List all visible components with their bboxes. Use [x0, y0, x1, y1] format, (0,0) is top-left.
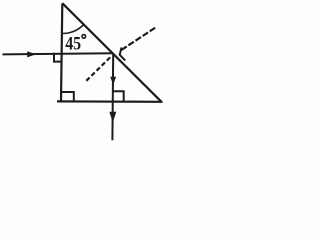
svg-text:45: 45 — [65, 34, 81, 54]
